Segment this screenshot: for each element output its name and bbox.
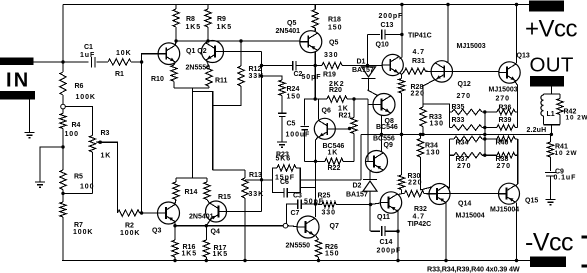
resistor R24 150	[262, 76, 283, 80]
transistor Q11 TIP42C	[380, 192, 401, 213]
capacitor C6 15pF	[273, 180, 284, 193]
svg-text:Q11: Q11	[377, 214, 390, 221]
svg-text:TIP42C: TIP42C	[408, 221, 432, 228]
transistor Q13 MJ15003	[499, 62, 520, 83]
svg-text:R37: R37	[456, 156, 469, 163]
wire +Vcc left drop to input bias node	[62, 5, 64, 63]
node input (junction R1/Q1/Q3)	[140, 60, 143, 63]
resistor R2 100K	[118, 210, 140, 216]
resistor R34b (0.39)	[450, 138, 454, 140]
connector OUT pad	[530, 76, 564, 87]
svg-text:Q1 Q2: Q1 Q2	[186, 48, 207, 55]
svg-text:R6: R6	[75, 83, 84, 90]
svg-text:270: 270	[497, 163, 511, 170]
svg-text:1K: 1K	[101, 153, 112, 160]
wire feedback line to R23/C6 box	[260, 178, 263, 181]
transistor Q14 MJ15004	[429, 184, 450, 205]
resistor R5 100	[62, 147, 64, 170]
resistor R9 1K5	[207, 5, 209, 10]
wire Q11 base	[369, 203, 372, 206]
svg-text:R5: R5	[74, 174, 83, 181]
resistor R15	[204, 182, 210, 200]
svg-text:R39: R39	[499, 117, 512, 124]
svg-text:D1: D1	[357, 59, 366, 66]
capacitor C14 200pF	[371, 230, 381, 232]
wire bank mid tap to output rail	[483, 110, 486, 113]
wire NPN tail bar	[174, 87, 209, 89]
wire -Vcc bottom rail	[62, 260, 531, 262]
wire Q5 col column to R20 row	[314, 66, 316, 100]
svg-text:130: 130	[430, 121, 444, 128]
resistor R35 (0.39)	[449, 111, 452, 113]
wire Q2 base to feedback column	[224, 51, 262, 53]
svg-text:1K5: 1K5	[213, 251, 229, 258]
capacitor C5 100uF	[278, 112, 287, 114]
wire Q6 base to R21 wiper	[336, 128, 349, 130]
node bias mid (open)	[61, 104, 66, 109]
resistor R36 (0.39)	[485, 111, 497, 113]
svg-text:1K: 1K	[328, 150, 339, 157]
svg-text:R31: R31	[412, 58, 425, 65]
svg-text:R24: R24	[287, 86, 300, 93]
svg-text:R1: R1	[115, 71, 124, 78]
svg-text:R8: R8	[186, 16, 195, 23]
diode D1 BA157	[368, 66, 370, 67]
wire Q12 collector to +Vcc	[446, 3, 449, 6]
transistor Q3 2N5401	[158, 202, 180, 224]
transistor Q8 BC546	[373, 94, 395, 116]
svg-text:+Vcc: +Vcc	[525, 16, 578, 43]
wire Q10 base	[368, 64, 383, 66]
svg-text:R11: R11	[215, 78, 228, 85]
resistor R37 (0.39)	[450, 154, 454, 156]
wire Q8 base	[368, 104, 373, 106]
svg-text:4.7: 4.7	[413, 214, 425, 221]
wire input node down to Q3 base	[141, 62, 143, 213]
svg-text:R9: R9	[217, 16, 226, 23]
connector IN lower pad	[0, 91, 35, 100]
svg-text:C6: C6	[280, 179, 289, 186]
resistor R28 220	[398, 79, 404, 94]
node R22 left	[314, 160, 317, 163]
wire Q1 collector	[174, 41, 177, 45]
wire +Vcc top rail	[63, 4, 529, 6]
svg-text:Q7: Q7	[330, 223, 339, 230]
svg-text:R14: R14	[185, 189, 198, 196]
resistor R34 130	[420, 134, 422, 138]
wire C1 to R1	[97, 61, 109, 63]
node Q1 collector / R8	[174, 39, 177, 42]
svg-text:R20: R20	[329, 87, 342, 94]
svg-text:100K: 100K	[120, 230, 140, 237]
wire feedback column	[261, 52, 263, 212]
svg-text:R13: R13	[249, 172, 262, 179]
wire IN lower pad to ground	[29, 100, 31, 133]
transistor Q4 2N5401	[206, 201, 227, 222]
svg-text:R10: R10	[151, 76, 164, 83]
svg-text:R19: R19	[323, 72, 336, 79]
wire Q13 collector to +Vcc	[515, 3, 518, 6]
svg-text:R4: R4	[72, 122, 81, 129]
wire Q14 collector to -Vcc	[445, 203, 447, 261]
wire Q6 collector up	[318, 99, 320, 120]
resistor R19 330	[315, 65, 322, 67]
svg-text:R2: R2	[125, 223, 134, 230]
svg-text:100: 100	[65, 131, 79, 138]
svg-text:MJ15003: MJ15003	[457, 43, 486, 50]
wire Q8/Q9 base column	[367, 99, 369, 162]
wire PNP tail bar	[176, 177, 207, 179]
wire box to output rail	[300, 179, 361, 181]
wire input signal	[34, 61, 89, 63]
wire Q15 emitter to bank	[516, 139, 518, 186]
wire to ground left	[40, 147, 63, 182]
wire tail jog to R12 bottom	[193, 92, 213, 171]
resistor R12 33K	[239, 39, 242, 42]
wire emitter bank bottom bracket	[447, 139, 450, 188]
resistor R23 5K6 (parallel C6)	[273, 168, 278, 180]
svg-text:Q10: Q10	[376, 42, 389, 49]
wire Q4 collector to R17	[206, 220, 210, 226]
svg-text:R12: R12	[249, 66, 262, 73]
svg-text:130: 130	[426, 150, 440, 157]
svg-text:R22: R22	[328, 165, 341, 172]
svg-text:R40: R40	[496, 140, 509, 147]
svg-text:R36: R36	[499, 105, 512, 112]
svg-text:R34: R34	[425, 143, 438, 150]
resistor R14	[173, 182, 179, 200]
svg-text:Q6: Q6	[322, 108, 331, 115]
svg-text:100K: 100K	[73, 229, 93, 236]
wire Q12 emitter to R33	[423, 80, 435, 87]
capacitor C2 50pF	[260, 64, 263, 67]
transistor Q9 BC556	[366, 151, 388, 173]
svg-text:10K: 10K	[116, 50, 132, 57]
svg-text:R33: R33	[452, 117, 465, 124]
resistor R42 10 2W	[559, 94, 561, 99]
svg-text:BA157: BA157	[352, 67, 374, 74]
transistor Q1 2N5550	[158, 43, 180, 65]
svg-text:C14: C14	[380, 239, 393, 246]
resistor R33b (0.39)	[449, 127, 452, 129]
transistor Q15 MJ15004	[499, 183, 520, 204]
resistor R33 130	[422, 86, 424, 108]
resistor R31 4.7	[402, 71, 405, 74]
ground (input)	[25, 132, 35, 134]
svg-text:R34: R34	[456, 140, 469, 147]
resistor R6 100K	[62, 62, 64, 72]
wire output rail	[361, 133, 551, 135]
resistor R17 1K5	[205, 226, 207, 240]
wire bank mid tap to output rail (bottom)	[484, 134, 486, 155]
svg-text:Q3: Q3	[152, 228, 161, 235]
svg-text:330: 330	[322, 210, 336, 217]
svg-text:MJ15004: MJ15004	[456, 213, 485, 220]
svg-text:Q15: Q15	[525, 198, 538, 205]
node bias top	[61, 60, 64, 63]
svg-text:IN: IN	[6, 70, 30, 92]
resistor R8 1K5	[175, 5, 177, 10]
svg-text:0.1uF: 0.1uF	[554, 175, 577, 182]
wire R2 to input column	[140, 212, 142, 214]
wire Q8 to Q9 column	[381, 115, 383, 151]
svg-text:1uF: 1uF	[80, 52, 95, 59]
transistor Q6 BC546	[314, 118, 335, 139]
ground (bias)	[35, 181, 45, 183]
svg-text:50pF: 50pF	[302, 74, 322, 81]
wire wiper to R2	[100, 142, 117, 213]
svg-text:100uF: 100uF	[286, 132, 311, 139]
connector IN upper pad	[0, 58, 34, 66]
resistor R13 33K	[244, 170, 246, 178]
svg-text:1K5: 1K5	[217, 24, 233, 31]
wire base line Q12-Q13	[429, 71, 499, 73]
wire Q3 collector to drive line	[174, 222, 176, 226]
diode D2 BA157	[369, 171, 371, 180]
potentiometer R3 1K	[89, 136, 95, 153]
wire emitter bank top bracket	[423, 104, 449, 128]
resistor R10	[174, 62, 175, 65]
wire Q9 collector to D2	[371, 169, 372, 172]
svg-text:2.2uH: 2.2uH	[527, 127, 547, 134]
svg-text:BC546: BC546	[376, 124, 398, 131]
svg-text:R21: R21	[339, 113, 352, 120]
svg-text:-Vcc: -Vcc	[525, 229, 573, 257]
tick right edge upper	[582, 236, 587, 239]
resistor R21 1K pot	[352, 97, 355, 100]
resistor R38 (0.39)	[485, 154, 497, 156]
svg-text:100K: 100K	[76, 94, 96, 101]
capacitor C9 0.1uF	[545, 172, 556, 174]
svg-text:R7: R7	[74, 222, 83, 229]
wire jog to R13 top	[213, 169, 245, 171]
svg-text:Q9: Q9	[384, 142, 393, 149]
svg-text:2N5401: 2N5401	[276, 28, 301, 35]
node R5/R7/R3	[61, 192, 64, 195]
resistor R40 (0.39)	[485, 138, 497, 140]
wire input node up to Q1 base	[142, 54, 158, 62]
svg-text:C7: C7	[291, 210, 300, 217]
resistor R18 150	[314, 5, 316, 10]
wire Q4 base to feedback column	[227, 211, 262, 213]
resistor R1 10K	[108, 59, 131, 65]
svg-text:1K5: 1K5	[182, 251, 198, 258]
wire lower drive line to Q7 base	[175, 225, 283, 227]
svg-text:R18: R18	[328, 17, 341, 24]
svg-text:R15: R15	[218, 194, 231, 201]
wire main column to Q7 collector	[315, 161, 317, 217]
svg-text:R32: R32	[414, 206, 427, 213]
resistor R20 2K2	[315, 98, 327, 100]
svg-text:330: 330	[324, 52, 338, 59]
resistor R26 150	[316, 236, 319, 240]
resistor R16 1K5	[174, 226, 176, 240]
resistor R41 10 2W	[550, 134, 552, 142]
svg-text:1K5: 1K5	[186, 24, 202, 31]
svg-text:BA157: BA157	[346, 192, 368, 199]
resistor R22 1K	[316, 160, 326, 162]
svg-text:150: 150	[328, 25, 342, 32]
resistor R30 220	[401, 134, 403, 175]
svg-text:1K: 1K	[338, 106, 349, 113]
node Q2 collector / R9	[206, 39, 209, 42]
inductor L1 2.2uH	[544, 93, 561, 95]
svg-text:C5: C5	[287, 121, 296, 128]
svg-text:4.7: 4.7	[413, 49, 425, 56]
transistor Q7 2N5550	[297, 216, 319, 238]
svg-text:MJ15004: MJ15004	[490, 207, 519, 214]
resistor R4 100	[62, 109, 64, 114]
svg-text:R25: R25	[318, 193, 331, 200]
svg-text:200pF: 200pF	[379, 13, 404, 20]
svg-text:R35: R35	[452, 104, 465, 111]
svg-text:150: 150	[325, 251, 339, 258]
transistor Q10 TIP41C	[382, 54, 403, 75]
svg-text:Q5: Q5	[287, 20, 296, 27]
tick right edge lower	[582, 265, 587, 268]
svg-text:270: 270	[496, 96, 510, 103]
wire R1 to input node	[131, 61, 142, 63]
capacitor C1 1uF	[91, 57, 93, 68]
wire L1/R42 bottom to output rail	[544, 124, 561, 126]
wire R4 to ground branch	[62, 129, 64, 148]
svg-text:D2: D2	[353, 183, 362, 190]
svg-text:150: 150	[287, 94, 301, 101]
node open junction on lower drive line	[283, 223, 288, 228]
wire OUT pad to L1/R42	[551, 87, 553, 95]
svg-text:R3: R3	[101, 130, 110, 137]
wire Q10 base column	[367, 35, 369, 66]
wire Q15 collector to -Vcc	[516, 203, 518, 261]
svg-text:270: 270	[457, 93, 471, 100]
ground (C9)	[546, 199, 556, 201]
svg-text:C3: C3	[293, 193, 302, 200]
wire base line Q14-Q15	[424, 193, 499, 195]
wire node to R3 bottom	[63, 192, 93, 194]
svg-text:Q5: Q5	[329, 40, 338, 47]
svg-text:Q4: Q4	[211, 229, 220, 236]
capacitor C7	[286, 204, 297, 223]
wire bias mid to R3 top	[65, 107, 92, 136]
transistor Q12 MJ15003	[431, 61, 452, 82]
wire Q6 emitter down	[316, 137, 319, 140]
resistor R39 (0.39)	[485, 127, 497, 129]
wire Q11 collector to -Vcc	[397, 212, 399, 261]
resistor R25 330	[316, 203, 323, 206]
node R24 tap	[260, 74, 263, 77]
svg-text:TIP41C: TIP41C	[408, 33, 432, 40]
wire Q10 emitter node	[400, 73, 402, 79]
capacitor C3 50pF link	[300, 186, 315, 188]
ground (C5)	[277, 141, 287, 143]
connector +Vcc pad	[529, 1, 564, 12]
R3 wiper	[99, 141, 102, 144]
svg-text:R38: R38	[496, 156, 509, 163]
wire Q13 emitter to bank	[515, 81, 518, 128]
svg-text:C1: C1	[84, 44, 93, 51]
wire tail to PNP tail	[192, 88, 194, 178]
transistor Q2 2N5550	[202, 41, 224, 63]
wire Q5 collector down	[314, 52, 316, 66]
svg-text:Q13: Q13	[517, 53, 530, 60]
svg-text:10 2W: 10 2W	[566, 115, 587, 122]
wire VAS drive line to Q5 base	[176, 40, 300, 42]
svg-text:5K6: 5K6	[276, 156, 292, 163]
capacitor C4 column from VAS node to R22 row	[305, 99, 316, 126]
svg-text:270: 270	[457, 163, 471, 170]
wire Q10 collector to +Vcc	[400, 3, 403, 6]
svg-text:2N5550: 2N5550	[286, 243, 311, 250]
node C2/R19	[314, 64, 317, 67]
resistor R11	[206, 60, 209, 66]
connector -Vcc pad	[530, 257, 566, 268]
svg-text:Q14: Q14	[458, 201, 471, 208]
resistor R7 100K	[62, 193, 64, 202]
svg-text:L1: L1	[547, 111, 555, 118]
transistor Q5 2N5401	[300, 31, 322, 53]
resistor R32 4.7	[402, 193, 405, 195]
capacitor C13 200pF	[368, 34, 381, 36]
wire Q11 emitter node	[398, 194, 402, 195]
wire D1 to Q8 collector	[368, 90, 378, 96]
svg-text:MJ15003: MJ15003	[489, 87, 518, 94]
svg-text:OUT: OUT	[530, 54, 574, 77]
svg-text:Q12: Q12	[458, 81, 471, 88]
svg-text:10 2W: 10 2W	[555, 150, 578, 157]
svg-text:C13: C13	[381, 22, 394, 29]
svg-text:R33,R34,R39,R40 4x0.39 4W: R33,R34,R39,R40 4x0.39 4W	[427, 264, 520, 273]
